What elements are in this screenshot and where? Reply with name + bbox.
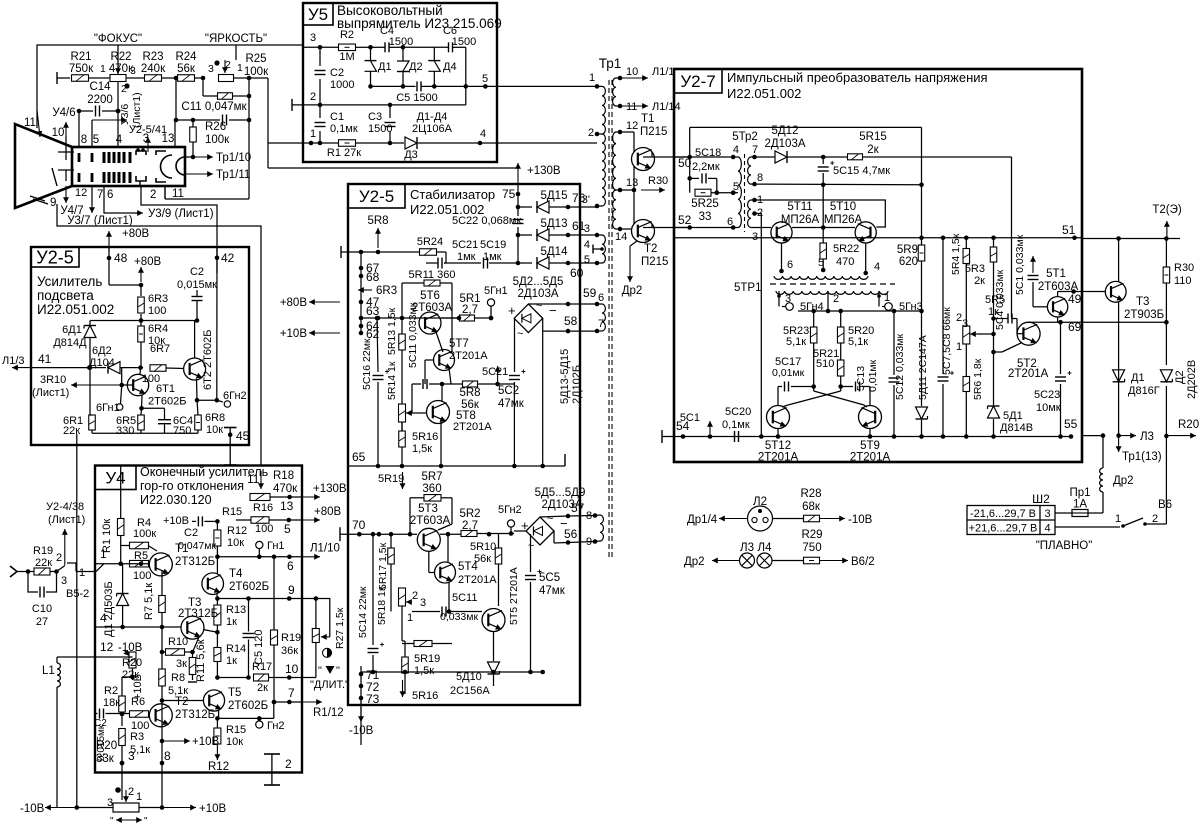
wire feedback top rail — [690, 126, 922, 128]
svg-text:R30: R30 — [1174, 262, 1194, 274]
svg-text:65: 65 — [352, 450, 366, 464]
svg-text:56: 56 — [564, 527, 578, 541]
wire +130V into box — [517, 163, 519, 184]
transistor 5T6 — [419, 312, 441, 334]
svg-text:R15: R15 — [222, 506, 242, 518]
svg-text:2Ц106А: 2Ц106А — [412, 123, 453, 135]
svg-text:13: 13 — [162, 133, 175, 145]
wire bridge2 to 57 row — [540, 516, 568, 517]
svg-text:61: 61 — [572, 219, 586, 233]
Тр1 winding 3-4-5 — [595, 233, 600, 238]
svg-text:R29: R29 — [801, 529, 822, 541]
svg-text:6Т2 2Т602Б: 6Т2 2Т602Б — [202, 330, 214, 390]
svg-text:5R4 1,5к: 5R4 1,5к — [950, 233, 962, 275]
svg-text:+10В: +10В — [163, 515, 189, 527]
svg-text:13: 13 — [280, 499, 294, 513]
svg-text:-10В: -10В — [848, 514, 873, 526]
svg-text:R24: R24 — [175, 51, 197, 63]
svg-text:12: 12 — [100, 640, 114, 654]
wire У5 pin4 out to Тр1 — [497, 142, 597, 144]
svg-text:В5-2: В5-2 — [66, 588, 89, 600]
svg-text:МП26А: МП26А — [781, 214, 820, 226]
wire Л1/14 — [620, 105, 648, 107]
capacitor 5C11 symbol — [412, 383, 421, 385]
wire 5R24 row — [340, 246, 342, 258]
CRT electrode pin 4 — [117, 81, 119, 147]
svg-text:6Д1: 6Д1 — [62, 324, 82, 336]
svg-text:Д814Д: Д814Д — [53, 337, 87, 349]
CRT deflection electrode pin 12 — [65, 170, 67, 181]
wire pin3 pin8 to bottom row — [121, 763, 123, 800]
resistor 5R2 — [440, 533, 461, 535]
svg-text:56к: 56к — [461, 399, 480, 411]
wire Тр1(13) arrow — [1118, 436, 1120, 452]
svg-text:5: 5 — [482, 73, 488, 85]
resistor 6R7 — [150, 365, 166, 372]
svg-text:С5 1500: С5 1500 — [396, 92, 438, 104]
svg-text:5Д13-5Д15: 5Д13-5Д15 — [559, 349, 571, 404]
svg-text:5С1 0,033мк: 5С1 0,033мк — [1014, 234, 1026, 295]
CRT electrode pin 13 bracket — [156, 151, 166, 155]
svg-text:2Т312Б: 2Т312Б — [175, 556, 215, 568]
wire 5T10 emitter — [865, 243, 867, 273]
svg-text:5R14 1к: 5R14 1к — [386, 361, 398, 400]
svg-text:1к: 1к — [226, 655, 237, 667]
resistor 6R5 — [140, 408, 143, 415]
resistor R19 symbol — [28, 571, 34, 573]
wire flipflop supply row 311 — [798, 310, 922, 312]
svg-text:68: 68 — [366, 270, 380, 284]
svg-text:33к: 33к — [96, 753, 115, 765]
svg-text:5С22 0,068мк: 5С22 0,068мк — [452, 215, 521, 227]
label 5R19 arrow down — [402, 472, 404, 489]
svg-text:7: 7 — [598, 318, 604, 330]
svg-text:C2: C2 — [190, 266, 204, 278]
svg-text:1к: 1к — [226, 616, 237, 628]
svg-text:2: 2 — [588, 127, 594, 139]
svg-text:5С13: 5С13 — [855, 366, 867, 391]
label +80V У4 — [303, 519, 320, 521]
wire +10V bottom arrow — [162, 807, 196, 809]
svg-text:У4: У4 — [105, 469, 125, 488]
svg-text:Ш2: Ш2 — [1032, 492, 1050, 506]
svg-text:49: 49 — [1068, 292, 1082, 306]
wire top rail right vertical — [921, 127, 923, 237]
wire bridge minus down — [542, 331, 544, 466]
svg-text:Д2: Д2 — [409, 61, 423, 73]
svg-text:R27 1,5к: R27 1,5к — [334, 607, 346, 649]
label 6R3 arrow — [358, 289, 372, 291]
svg-text:5С14 22мк: 5С14 22мк — [357, 586, 369, 638]
svg-text:0,1мк: 0,1мк — [330, 123, 358, 135]
svg-text:2: 2 — [310, 91, 316, 103]
svg-text:36к: 36к — [281, 645, 298, 657]
svg-text:73: 73 — [366, 692, 380, 706]
capacitor 5C2 — [509, 375, 520, 377]
wire bridge minus to 58 row — [543, 318, 555, 331]
label У2-5/41 — [147, 137, 149, 152]
resistor 5R24 — [420, 249, 437, 256]
svg-text:R21: R21 — [70, 51, 91, 63]
svg-text:1мк: 1мк — [483, 251, 502, 263]
svg-text:R12: R12 — [227, 525, 247, 537]
svg-text:2: 2 — [412, 590, 418, 602]
CRT electrode pin 8 — [78, 153, 81, 162]
svg-text:8: 8 — [757, 172, 763, 184]
resistor below 5R18 — [414, 641, 432, 647]
svg-text:5С19: 5С19 — [480, 239, 506, 251]
svg-text:330: 330 — [116, 425, 134, 437]
svg-text:2: 2 — [1152, 513, 1158, 525]
svg-text:R25: R25 — [245, 53, 266, 65]
svg-text:6R4: 6R4 — [148, 323, 168, 335]
capacitor C4 — [371, 46, 386, 48]
svg-text:360: 360 — [422, 483, 441, 495]
svg-text:6: 6 — [727, 216, 733, 228]
svg-text:1500: 1500 — [389, 36, 413, 48]
svg-text:11: 11 — [172, 188, 184, 200]
svg-text:5R16: 5R16 — [412, 690, 438, 702]
svg-text:76: 76 — [572, 191, 586, 205]
svg-text:5Т5 2Т201А: 5Т5 2Т201А — [508, 567, 520, 625]
svg-text:2Т903Б: 2Т903Б — [1124, 309, 1164, 321]
capacitor C2 У5 — [319, 47, 321, 66]
svg-text:У3/9 (Лист1): У3/9 (Лист1) — [148, 208, 214, 220]
svg-text:1,5к: 1,5к — [414, 665, 434, 677]
svg-text:подсвета: подсвета — [37, 288, 94, 303]
svg-text:33: 33 — [699, 211, 712, 223]
svg-text:68к: 68к — [802, 501, 821, 513]
transistor 5T3 — [417, 528, 440, 551]
svg-text:C14: C14 — [89, 81, 111, 93]
svg-text:8: 8 — [164, 749, 171, 763]
svg-text:Пр1: Пр1 — [1069, 487, 1090, 499]
svg-text:У3/7 (Лист1): У3/7 (Лист1) — [67, 215, 133, 227]
svg-text:4: 4 — [100, 611, 107, 625]
svg-text:": " — [318, 665, 322, 677]
wire pin 10 row R17 — [217, 677, 249, 679]
resistor R2 У4 — [121, 677, 123, 696]
svg-text:У2-5: У2-5 — [359, 187, 394, 206]
svg-text:+80В: +80В — [122, 228, 150, 240]
wire 5Тр2 pin1 loop — [755, 200, 886, 227]
wire +130V rail under У5 — [267, 143, 269, 168]
svg-text:Тр1: Тр1 — [599, 56, 622, 71]
svg-text:R11 5,6к: R11 5,6к — [195, 639, 207, 682]
svg-text:"ДЛИТ.": "ДЛИТ." — [310, 679, 349, 691]
CRT electrode pin 3 hook — [136, 151, 146, 155]
svg-text:5R10: 5R10 — [470, 541, 496, 553]
resistor R21 — [57, 77, 70, 79]
label 5C21 arrow up — [497, 366, 499, 384]
svg-text:C11 0,047мк: C11 0,047мк — [181, 101, 247, 113]
transistor 5T8 — [427, 401, 450, 424]
svg-text:7: 7 — [97, 189, 103, 201]
label +130V У4 — [303, 496, 320, 498]
svg-text:5С18: 5С18 — [695, 147, 721, 159]
transistor 5T2 У2-7 — [1017, 322, 1040, 345]
5Тр2 pin 5 — [731, 190, 736, 195]
wire -10V стаб — [360, 700, 362, 722]
svg-text:5Т3: 5Т3 — [418, 503, 438, 515]
svg-text:18к: 18к — [103, 697, 120, 709]
wire bridge to 59 row — [528, 303, 568, 305]
CRT kinescope funnel — [15, 124, 72, 208]
svg-text:0,01мк: 0,01мк — [772, 367, 805, 379]
svg-text:6: 6 — [287, 559, 294, 573]
svg-text:Л1/10: Л1/10 — [310, 543, 340, 555]
svg-text:100к: 100к — [244, 66, 269, 78]
svg-text:100к: 100к — [205, 134, 230, 146]
svg-text:У2-5: У2-5 — [36, 247, 73, 267]
wire: CRT anode pin 11 lead — [37, 110, 40, 137]
resistor R19 У4 — [273, 557, 275, 630]
wire +80V pin 47 — [309, 301, 340, 303]
svg-text:R15: R15 — [226, 724, 246, 736]
wire +10V pin 62 — [309, 332, 340, 334]
wire 5T11 emitter to 5ТР1 — [781, 243, 783, 271]
pins 64 62 — [359, 324, 364, 329]
svg-text:100: 100 — [148, 305, 166, 317]
5ТР1 core dashed — [770, 283, 895, 285]
wire +80V feed pin 48 — [108, 231, 110, 252]
svg-text:2Д202В: 2Д202В — [1186, 360, 1198, 399]
svg-text:14: 14 — [615, 231, 627, 243]
svg-text:Тр1/10: Тр1/10 — [216, 152, 251, 164]
svg-text:5: 5 — [93, 134, 99, 146]
svg-text:5R16: 5R16 — [412, 431, 438, 443]
transistor 5T4 — [435, 562, 456, 583]
CRT electrode pin 2 bracket — [136, 176, 146, 181]
svg-text:7: 7 — [288, 686, 295, 700]
svg-text:+21,6...29,7 В: +21,6...29,7 В — [969, 523, 1038, 535]
svg-text:59: 59 — [583, 286, 597, 300]
svg-text:+80В: +80В — [134, 256, 162, 268]
wire 63 row — [361, 317, 420, 319]
CRT heater arc — [161, 155, 173, 178]
svg-text:5Т10: 5Т10 — [830, 201, 856, 213]
svg-text:R28: R28 — [800, 488, 821, 500]
svg-text:47мк: 47мк — [498, 398, 525, 410]
CRT deflection electrode pin 10 — [65, 136, 67, 152]
terminal 5Гн4 — [778, 291, 780, 300]
svg-text:5Т12: 5Т12 — [765, 440, 791, 452]
wire У5 pin5 out to Тр1 — [497, 85, 597, 87]
svg-text:1: 1 — [310, 128, 316, 140]
wire T3 emitter down — [1118, 302, 1120, 436]
svg-text:R23: R23 — [142, 51, 163, 63]
svg-text:И22.051.002: И22.051.002 — [727, 86, 801, 101]
pins 71 72 73 — [359, 672, 364, 677]
svg-text:51: 51 — [1062, 223, 1076, 237]
svg-text:Л1/1: Л1/1 — [652, 66, 675, 78]
terminal Гн1 — [256, 541, 263, 548]
svg-text:2,7: 2,7 — [462, 304, 478, 316]
ground pin 2 У4 — [271, 754, 273, 785]
resistor R10 — [166, 649, 185, 656]
svg-text:+10В: +10В — [192, 736, 220, 748]
svg-text:В6/2: В6/2 — [851, 556, 875, 568]
5Тр2 secondary 7-8 — [752, 155, 757, 160]
svg-text:3: 3 — [128, 749, 135, 763]
svg-text:5R25: 5R25 — [691, 198, 719, 210]
wire heater to Тр1/11 — [185, 173, 213, 175]
svg-text:3к: 3к — [176, 658, 187, 670]
svg-text:1: 1 — [407, 612, 413, 624]
svg-text:5R19: 5R19 — [414, 653, 440, 665]
svg-text:У3/6: У3/6 — [119, 104, 131, 125]
resistor R6 — [130, 711, 149, 718]
svg-text:R19: R19 — [281, 632, 301, 644]
svg-text:2Т602Б: 2Т602Б — [229, 581, 269, 593]
wire 5T3 emitter to 5T4 — [428, 551, 430, 572]
svg-text:5С5: 5С5 — [539, 572, 560, 584]
svg-text:L1: L1 — [42, 665, 55, 677]
svg-text:5Д2...5Д5: 5Д2...5Д5 — [513, 276, 564, 288]
terminal Гн2 — [257, 716, 262, 721]
wire T2 collector to У2-7 pin52 — [651, 224, 653, 228]
svg-text:70: 70 — [352, 518, 366, 532]
svg-text:R20: R20 — [96, 740, 117, 752]
resistor R8 — [161, 627, 163, 669]
transistor T5 — [203, 690, 224, 711]
svg-text:+130В: +130В — [313, 483, 347, 495]
transistor T4 У4 — [202, 573, 224, 595]
CRT neck — [72, 147, 185, 186]
svg-text:56к: 56к — [177, 63, 196, 75]
bottom internal rail — [361, 673, 373, 675]
svg-text:2: 2 — [833, 293, 839, 305]
svg-text:10: 10 — [626, 66, 638, 78]
svg-text:1: 1 — [136, 791, 142, 803]
svg-text:4: 4 — [480, 128, 486, 140]
svg-text:Д1: Д1 — [1131, 372, 1145, 384]
resistor 6R3 — [140, 285, 142, 296]
svg-text:П215: П215 — [641, 256, 668, 268]
svg-text:5Т11: 5Т11 — [787, 201, 812, 213]
svg-text:R2: R2 — [104, 685, 118, 697]
svg-text:0,1мк: 0,1мк — [722, 419, 750, 431]
wire into У4 pin1 — [96, 564, 104, 572]
transistor 6T2 — [184, 358, 206, 380]
capacitor C10 — [28, 572, 38, 593]
svg-text:47мк: 47мк — [539, 585, 566, 597]
svg-text:100: 100 — [255, 523, 273, 535]
svg-text:~: ~ — [536, 300, 542, 312]
svg-text:У5: У5 — [308, 5, 328, 24]
svg-text:5: 5 — [584, 254, 590, 266]
svg-text:Стабилизатор: Стабилизатор — [410, 187, 495, 202]
svg-text:5С4 0,033мк: 5С4 0,033мк — [994, 269, 1006, 330]
svg-text:Усилитель: Усилитель — [37, 274, 102, 289]
svg-text:48: 48 — [114, 251, 128, 265]
resistor R24 — [176, 77, 178, 79]
pin 42 label — [215, 255, 220, 260]
svg-text:1,5к: 1,5к — [412, 443, 432, 455]
svg-text:": " — [144, 816, 148, 827]
wire -10V lamp — [820, 518, 846, 520]
capacitor 5C5 — [530, 544, 532, 573]
svg-text:4: 4 — [1044, 523, 1050, 535]
svg-text:2Т201А: 2Т201А — [449, 350, 488, 362]
label 3R10 arrow — [121, 368, 123, 385]
wire 49 row — [1071, 289, 1076, 294]
svg-text:5R8: 5R8 — [459, 387, 480, 399]
svg-text:5Гн1: 5Гн1 — [484, 285, 508, 297]
wire pin2 row — [320, 104, 390, 106]
resistor R15 bottom — [216, 718, 218, 728]
svg-text:5Д15: 5Д15 — [541, 190, 568, 202]
svg-text:R8: R8 — [171, 672, 185, 684]
svg-text:6R8: 6R8 — [205, 412, 225, 424]
choke Др2 right — [1102, 436, 1104, 468]
block У4 Оконечный усилитель — [95, 466, 302, 773]
svg-text:R26: R26 — [205, 121, 226, 133]
diode Д4 У5 — [433, 47, 435, 60]
svg-text:1мк: 1мк — [457, 251, 476, 263]
wire R25 to У5 pin1 — [249, 77, 268, 79]
svg-text:10: 10 — [285, 662, 299, 676]
svg-text:6Т1: 6Т1 — [156, 383, 175, 395]
svg-text:+10В: +10В — [199, 803, 227, 815]
svg-text:C10: C10 — [32, 603, 52, 615]
svg-text:6Д2: 6Д2 — [92, 345, 112, 357]
svg-text:69: 69 — [1068, 320, 1082, 334]
svg-text:5R8: 5R8 — [367, 215, 388, 227]
resistor 6R4 — [140, 321, 142, 327]
svg-text:11: 11 — [626, 101, 637, 113]
svg-text:Др2: Др2 — [622, 285, 643, 297]
wire T1 collector to У2-7 pin50 — [651, 152, 653, 157]
svg-text:110: 110 — [1174, 275, 1192, 287]
svg-text:6R3: 6R3 — [148, 293, 168, 305]
svg-text:П215: П215 — [640, 126, 667, 138]
svg-text:Д104: Д104 — [89, 357, 115, 369]
svg-text:4: 4 — [874, 261, 880, 273]
У5 pin 4 wire to Тр1 pin2 — [480, 142, 497, 144]
label У4/7 — [65, 186, 67, 203]
svg-text:2Т602Б: 2Т602Б — [228, 700, 268, 712]
block У2-7 Импульсный преобразователь — [674, 69, 1082, 462]
svg-text:10к: 10к — [206, 424, 223, 436]
trimmer R20 22к — [129, 652, 136, 668]
resistor 6R1 — [89, 368, 91, 415]
terminal 6Гн2 — [197, 399, 217, 401]
svg-text:Д814В: Д814В — [1000, 422, 1033, 434]
wire В6/2 — [820, 560, 849, 562]
svg-text:R13: R13 — [226, 604, 246, 616]
resistor R2 — [339, 44, 356, 51]
svg-text:2Т201А: 2Т201А — [1008, 368, 1049, 380]
svg-text:3: 3 — [208, 63, 214, 75]
svg-text:1000: 1000 — [330, 79, 354, 91]
capacitor C14 — [79, 110, 93, 112]
resistor 5R22 — [822, 228, 824, 244]
svg-text:Т5: Т5 — [228, 687, 241, 699]
svg-text:5Тр2: 5Тр2 — [732, 131, 758, 143]
svg-text:5С1: 5С1 — [680, 412, 700, 424]
svg-text:100: 100 — [133, 570, 151, 582]
wire 51 row right — [1082, 238, 1180, 240]
svg-text:": " — [110, 816, 114, 827]
svg-text:12: 12 — [75, 187, 87, 199]
svg-text:5Гн2: 5Гн2 — [498, 504, 522, 516]
CRT electrode pin 5 — [91, 153, 94, 162]
wire heater to Тр1/10 — [185, 156, 193, 158]
wire 54 row — [661, 430, 663, 443]
Тр1 winding 6-7 — [595, 302, 600, 307]
svg-text:Гн2: Гн2 — [267, 720, 285, 732]
